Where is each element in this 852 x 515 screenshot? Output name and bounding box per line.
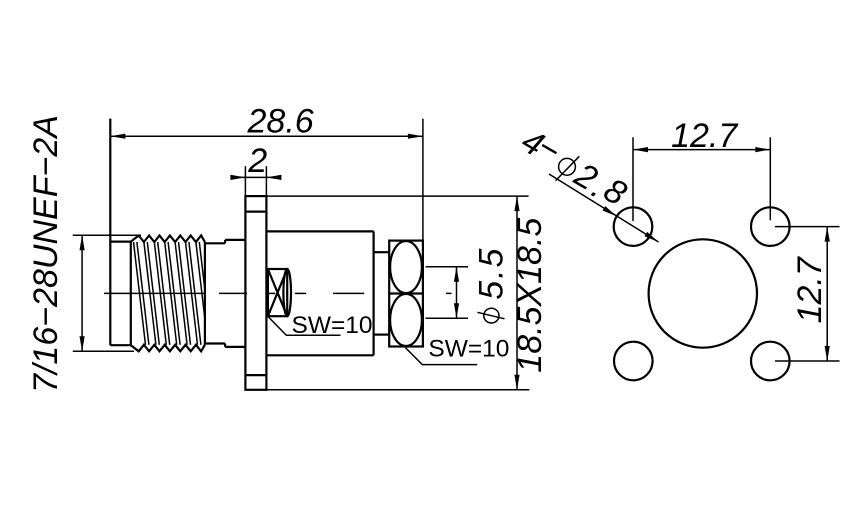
front view: mounting hole top-right <box>751 207 790 246</box>
dimension 28.6 <box>110 119 423 241</box>
dimension phi 5.5 <box>426 267 469 318</box>
svg-text:5.5: 5.5 <box>473 247 511 300</box>
label SW=10 (body) <box>268 316 341 335</box>
svg-text:28.6: 28.6 <box>247 102 314 140</box>
cylinder before flange <box>225 240 245 347</box>
neck between body and nut <box>374 252 390 334</box>
dimension 12.7 horizontal <box>633 137 770 221</box>
thread helix flank lines <box>134 242 205 345</box>
left collar of connector <box>110 119 131 346</box>
front view: mounting hole top-left <box>614 207 653 246</box>
flange plate (2mm) <box>245 196 266 390</box>
label SW=10 (nut) <box>405 348 477 365</box>
threaded section 7/16-28UNEF <box>131 236 205 352</box>
groove cylinder after thread <box>205 240 225 347</box>
svg-text:12.7: 12.7 <box>671 117 738 155</box>
svg-text:12.7: 12.7 <box>791 256 829 323</box>
hex nut <box>389 241 423 347</box>
front view: center circle <box>649 239 757 347</box>
svg-text:18.5X18.5: 18.5X18.5 <box>511 218 549 373</box>
main body <box>266 231 373 355</box>
dimension 2 (flange thickness) <box>233 166 278 196</box>
front view: mounting hole bottom-left <box>614 342 653 381</box>
svg-text:7/16−28UNEF−2A: 7/16−28UNEF−2A <box>27 115 65 393</box>
dimension 12.7 vertical <box>775 227 840 361</box>
svg-text:2: 2 <box>247 142 267 180</box>
front view: mounting hole bottom-right <box>751 342 790 381</box>
dimension 18.5X18.5 <box>266 196 529 390</box>
thread end line <box>204 242 206 345</box>
label 4-phi2.8 with leader <box>549 174 659 242</box>
crimp ring with cross (X box) <box>268 269 291 316</box>
svg-text:SW=10: SW=10 <box>428 335 509 362</box>
svg-text:SW=10: SW=10 <box>292 312 373 339</box>
dimension 7/16-28UNEF-2A (thread) <box>73 235 141 351</box>
centerline of side view <box>104 292 452 294</box>
